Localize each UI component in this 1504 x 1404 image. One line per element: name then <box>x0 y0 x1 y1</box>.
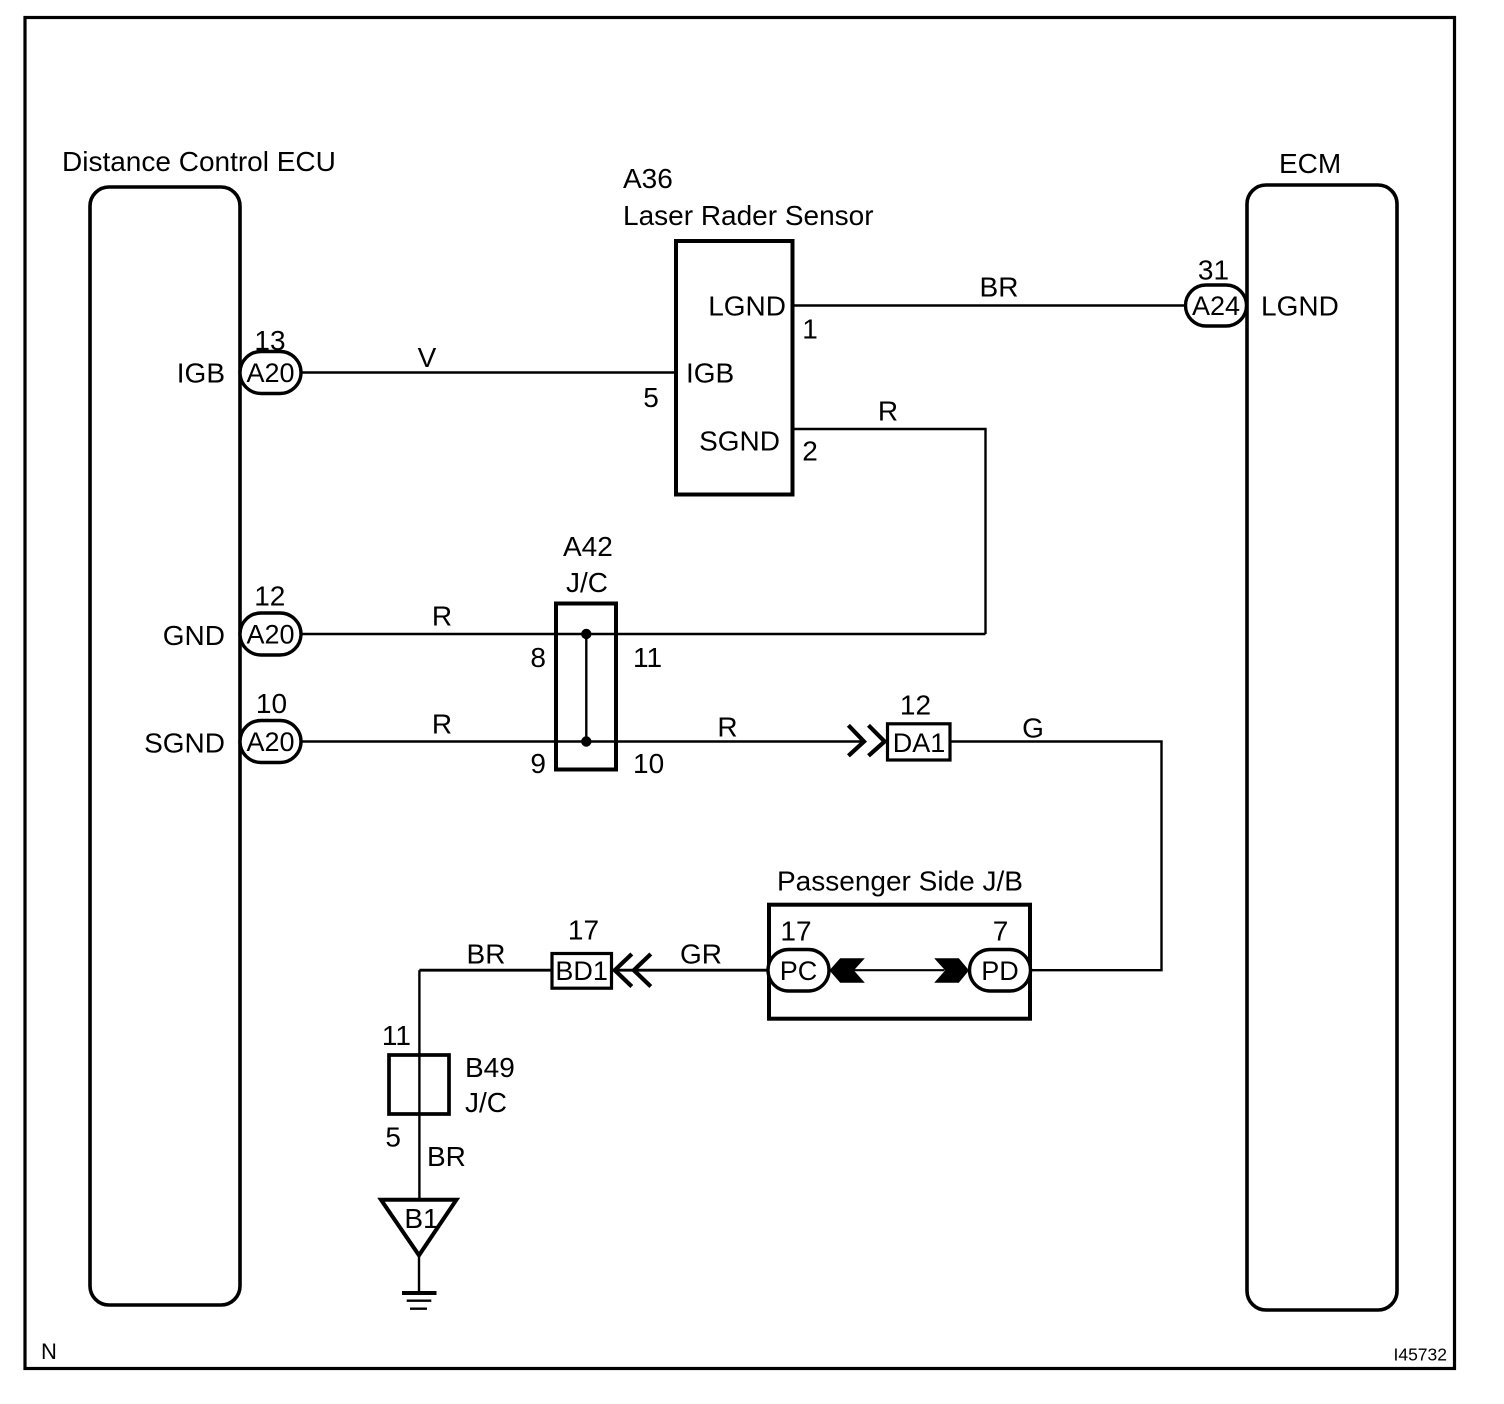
svg-text:A42: A42 <box>563 531 613 562</box>
svg-text:9: 9 <box>530 748 546 779</box>
inline connector arrows into DA1 <box>848 725 884 756</box>
inline connector arrows into BD1 <box>615 954 651 987</box>
svg-text:PD: PD <box>981 956 1019 986</box>
svg-text:BR: BR <box>980 272 1019 303</box>
svg-text:Laser Rader Sensor: Laser Rader Sensor <box>623 200 874 231</box>
svg-text:17: 17 <box>568 915 599 946</box>
connector A24 pin 31 LGND <box>1186 255 1339 327</box>
svg-text:12: 12 <box>254 581 285 612</box>
svg-text:PC: PC <box>780 956 818 986</box>
wire R from A20 pin 10 through A42 to DA1 <box>301 709 865 743</box>
svg-text:Passenger Side J/B: Passenger Side J/B <box>777 866 1023 897</box>
svg-text:B1: B1 <box>404 1203 438 1234</box>
svg-text:11: 11 <box>633 642 662 673</box>
connector A20 pin 12 GND <box>163 581 301 656</box>
svg-text:2: 2 <box>802 436 818 467</box>
pin IGB (pin 5) of A36 <box>643 358 734 414</box>
splice arrows between PC and PD <box>829 958 969 983</box>
connector PC pin 17 <box>768 916 829 992</box>
inline connector BD1 pin 17 <box>552 915 612 989</box>
svg-text:5: 5 <box>385 1122 401 1153</box>
component A36 Laser Rader Sensor <box>623 163 874 495</box>
wire R from A36 pin 2 down to GND net <box>793 396 986 635</box>
wire from corner down to B49 pin 11 <box>418 970 420 1114</box>
connector block ECM <box>1247 148 1397 1310</box>
junction block Passenger Side J/B <box>769 866 1030 1019</box>
svg-text:R: R <box>432 601 452 632</box>
splice bar inside A42 <box>585 634 587 742</box>
svg-text:5: 5 <box>643 382 659 413</box>
svg-text:A36: A36 <box>623 163 673 194</box>
connector PD pin 7 <box>970 916 1031 992</box>
svg-text:R: R <box>878 396 898 427</box>
pin SGND (pin 2) of A36 <box>699 426 818 467</box>
wire BR from BD1 to corner above B49 <box>419 939 552 971</box>
svg-text:10: 10 <box>633 748 664 779</box>
svg-text:IGB: IGB <box>177 358 225 389</box>
svg-text:J/C: J/C <box>566 567 608 598</box>
svg-text:R: R <box>432 709 452 740</box>
junction dot A42 pins 8/11 <box>581 629 591 639</box>
wire BR from A36 pin 1 to A24 pin 31 <box>793 272 1186 306</box>
wire G from DA1 to PD pin 7 <box>950 713 1162 971</box>
connector A20 pin 13 IGB <box>177 325 301 394</box>
svg-text:A20: A20 <box>246 358 294 388</box>
connector block Distance Control ECU <box>62 146 336 1305</box>
pin LGND (pin 1) of A36 <box>708 291 818 345</box>
svg-text:1: 1 <box>802 314 818 345</box>
svg-text:B49: B49 <box>465 1052 515 1083</box>
svg-text:SGND: SGND <box>699 426 780 457</box>
svg-text:GR: GR <box>680 939 722 970</box>
svg-text:ECM: ECM <box>1279 148 1341 179</box>
junction dot A42 pins 9/10 <box>581 736 591 746</box>
svg-text:A20: A20 <box>246 727 294 757</box>
svg-text:IGB: IGB <box>686 358 734 389</box>
svg-text:BR: BR <box>467 939 506 970</box>
svg-text:Distance Control ECU: Distance Control ECU <box>62 146 336 177</box>
svg-text:G: G <box>1022 713 1044 744</box>
svg-text:31: 31 <box>1198 255 1229 286</box>
wire GR from PC pin 17 to BD1 <box>612 939 769 971</box>
svg-text:J/C: J/C <box>465 1087 507 1118</box>
svg-text:V: V <box>418 342 437 373</box>
ground symbol <box>402 1255 437 1308</box>
wire R from A20 pin 12 through A42 to R-net <box>301 601 986 635</box>
svg-text:SGND: SGND <box>144 728 225 759</box>
svg-text:DA1: DA1 <box>893 728 946 758</box>
svg-text:BR: BR <box>427 1141 466 1172</box>
svg-text:A24: A24 <box>1192 291 1240 321</box>
connector A20 pin 10 SGND <box>144 688 301 763</box>
wire V from A20 pin 13 to A36 pin 5 <box>301 342 676 373</box>
svg-text:N: N <box>41 1339 57 1364</box>
svg-text:7: 7 <box>993 916 1009 947</box>
svg-text:GND: GND <box>163 620 225 651</box>
svg-text:8: 8 <box>530 642 546 673</box>
svg-text:R: R <box>717 712 737 743</box>
svg-text:A20: A20 <box>246 620 294 650</box>
svg-text:12: 12 <box>900 690 931 721</box>
svg-text:10: 10 <box>256 688 287 719</box>
svg-text:I45732: I45732 <box>1393 1345 1447 1365</box>
svg-text:LGND: LGND <box>708 291 786 322</box>
ground point B1 <box>381 1200 456 1256</box>
junction connector B49 J/C pin 11 / pin 5 <box>382 1020 515 1118</box>
wire BR from B49 pin 5 to ground B1 <box>385 1114 465 1200</box>
svg-text:BD1: BD1 <box>555 956 608 986</box>
svg-text:LGND: LGND <box>1261 291 1339 322</box>
junction connector A42 J/C <box>530 531 664 779</box>
svg-text:17: 17 <box>780 916 811 947</box>
svg-text:11: 11 <box>382 1020 411 1051</box>
inline connector DA1 pin 12 <box>888 690 951 761</box>
